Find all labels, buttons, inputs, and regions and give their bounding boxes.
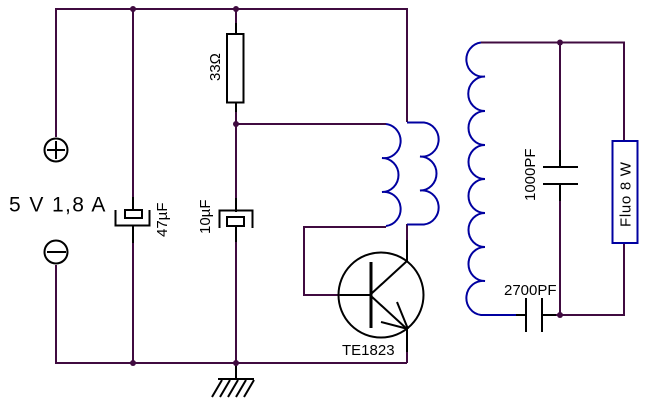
junction node top R1 (233, 6, 239, 12)
svg-text:10µF: 10µF (197, 200, 214, 235)
wire top rail (56, 9, 407, 137)
junction node B below R1 (233, 121, 239, 127)
capacitor C2 10uF (220, 198, 253, 242)
junction node top C1 (130, 6, 136, 12)
plus terminal (45, 139, 68, 162)
ground (212, 363, 254, 397)
capacitor C1 47uF (116, 197, 150, 243)
wire bottom rail (56, 265, 407, 363)
wire node B to feedback winding (236, 123, 386, 125)
junction node bottom ground (233, 360, 239, 366)
junction node bottom C3 (557, 312, 563, 318)
wire R1/C2 branch (235, 9, 237, 363)
wire C1 branch (132, 9, 134, 363)
inductor L1 primary winding (407, 123, 439, 225)
wire C3 branch (559, 43, 561, 316)
capacitor C3 1000PF (543, 150, 578, 201)
svg-text:5 V 1,8 A: 5 V 1,8 A (9, 194, 107, 217)
svg-text:Fluo 8 W: Fluo 8 W (618, 161, 635, 227)
svg-text:47µF: 47µF (154, 203, 171, 238)
svg-text:2700PF: 2700PF (504, 282, 557, 299)
wire emitter to bottom rail (406, 350, 408, 363)
inductor L3 secondary winding (466, 43, 518, 316)
resistor R 33ohm (227, 23, 244, 112)
lamp Fluo 8W (613, 141, 638, 243)
minus terminal (45, 241, 68, 264)
wire C4 to lamp bottom (556, 244, 624, 315)
junction node top C3 (557, 40, 563, 46)
wire feedback winding to base (304, 227, 386, 295)
svg-text:1000PF: 1000PF (522, 148, 539, 201)
wire primary winding to collector (406, 224, 408, 240)
inductor L2 feedback winding (382, 124, 401, 226)
svg-text:33Ω: 33Ω (207, 53, 224, 81)
svg-text:TE1823: TE1823 (342, 342, 395, 359)
transistor Q1 (339, 240, 424, 352)
junction node bottom C1 (130, 360, 136, 366)
capacitor C4 2700PF (516, 298, 556, 332)
wire secondary top rail (481, 43, 624, 141)
